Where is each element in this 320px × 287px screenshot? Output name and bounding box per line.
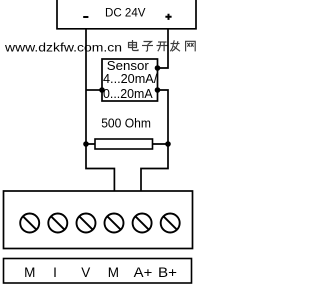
screw terminal 3 (77, 214, 96, 233)
terminal label strip (4, 259, 192, 284)
svg-text:DC 24V: DC 24V (105, 5, 146, 19)
sensor pin dot 2 (155, 87, 161, 93)
terminal block body (4, 191, 193, 249)
wire: sensor pin 3 to negative rail (86, 89, 102, 91)
resistor R1 body (95, 139, 153, 149)
screw terminal 6 (161, 214, 180, 233)
sensor pin dot 3 (99, 87, 105, 93)
resistor R1 500 Ohm leads (86, 143, 168, 145)
wire: negative rail from DC box jogging into terminal 4 (86, 29, 114, 191)
watermark chinese char 开 (157, 42, 168, 51)
svg-text:I: I (53, 265, 57, 280)
svg-text:V: V (81, 265, 90, 280)
sensor U1 box (102, 59, 158, 101)
svg-text:M: M (108, 265, 119, 280)
wire: positive rail from DC box down to sensor pin 1 (158, 29, 169, 68)
svg-text:www.dzkfw.com.cn: www.dzkfw.com.cn (4, 40, 122, 54)
watermark chinese char 网 (186, 41, 196, 51)
svg-text:M: M (24, 265, 35, 280)
junction dot negative rail / resistor (83, 141, 89, 147)
screw terminal 1 (20, 214, 39, 233)
svg-text:500 Ohm: 500 Ohm (101, 117, 151, 131)
screw terminal 5 (133, 214, 152, 233)
junction dot positive rail / resistor (165, 141, 171, 147)
svg-text:A+: A+ (134, 265, 153, 280)
wire: sensor pin 2 to positive rail jogging into terminal 5 (141, 90, 168, 191)
screw terminal 4 (105, 214, 124, 233)
watermark chinese char 电 (129, 40, 139, 51)
watermark chinese char 子 (142, 42, 153, 52)
minus terminal label (83, 16, 88, 18)
svg-text:4...20mA/: 4...20mA/ (103, 71, 158, 86)
DC 24V supply box (open at top) (57, 0, 196, 29)
sensor pin dot 1 (155, 65, 161, 71)
svg-text:0...20mA: 0...20mA (103, 86, 153, 101)
plus terminal label (165, 14, 171, 20)
screw terminal 2 (48, 214, 67, 233)
svg-text:B+: B+ (158, 265, 177, 280)
watermark chinese char 发 (170, 40, 180, 51)
